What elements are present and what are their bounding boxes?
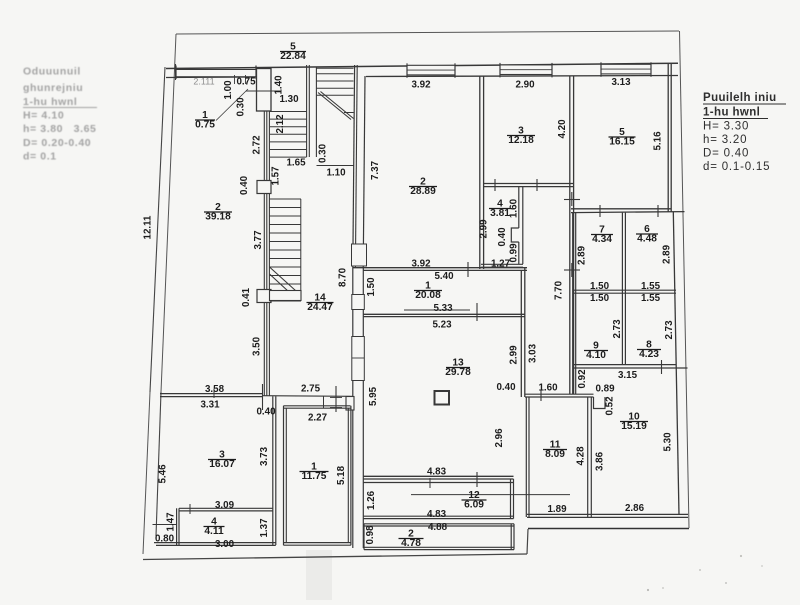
- svg-text:4.11: 4.11: [204, 526, 224, 537]
- svg-text:0.30: 0.30: [236, 97, 247, 117]
- svg-text:11.75: 11.75: [302, 471, 327, 482]
- svg-text:5.16: 5.16: [653, 131, 664, 151]
- svg-text:3.73: 3.73: [259, 446, 270, 466]
- svg-text:D= 0.20-0.40: D= 0.20-0.40: [23, 137, 91, 149]
- svg-text:1.55: 1.55: [641, 293, 661, 304]
- svg-text:H= 4.10: H= 4.10: [23, 110, 64, 122]
- svg-text:12.18: 12.18: [508, 135, 534, 146]
- svg-text:4.20: 4.20: [557, 119, 568, 139]
- svg-text:H= 3.30: H= 3.30: [703, 121, 749, 133]
- svg-text:1.50: 1.50: [590, 293, 610, 304]
- svg-text:16.15: 16.15: [609, 137, 635, 148]
- svg-text:0.41: 0.41: [241, 287, 252, 307]
- svg-text:1.50: 1.50: [590, 281, 610, 292]
- svg-text:0.98: 0.98: [365, 525, 376, 545]
- svg-text:12.11: 12.11: [143, 215, 154, 240]
- svg-text:3.58: 3.58: [205, 384, 225, 395]
- svg-text:1.00: 1.00: [223, 80, 234, 100]
- svg-text:h= 3.80 3.65: h= 3.80 3.65: [23, 123, 97, 135]
- svg-text:8.09: 8.09: [545, 449, 565, 460]
- svg-text:15.19: 15.19: [621, 421, 647, 432]
- svg-text:h= 3.20: h= 3.20: [703, 134, 747, 146]
- svg-text:0.99: 0.99: [509, 243, 520, 263]
- svg-text:7.70: 7.70: [554, 280, 565, 300]
- svg-text:3.15: 3.15: [618, 370, 638, 381]
- svg-text:3.81: 3.81: [490, 208, 510, 219]
- svg-text:1.30: 1.30: [279, 94, 299, 105]
- svg-text:5.18: 5.18: [336, 465, 347, 485]
- svg-text:5.30: 5.30: [663, 432, 674, 452]
- svg-text:0.40: 0.40: [256, 407, 276, 418]
- svg-text:1.47: 1.47: [166, 512, 177, 532]
- svg-text:4.10: 4.10: [586, 350, 606, 361]
- svg-text:4.48: 4.48: [637, 234, 657, 245]
- svg-text:22.84: 22.84: [280, 51, 306, 62]
- svg-text:29.78: 29.78: [445, 367, 471, 378]
- svg-text:2.90: 2.90: [515, 80, 535, 91]
- svg-text:5.33: 5.33: [433, 303, 453, 314]
- svg-text:2.12: 2.12: [275, 114, 286, 134]
- svg-text:Oduuunuil: Oduuunuil: [23, 66, 81, 78]
- svg-text:0.40: 0.40: [497, 227, 508, 247]
- svg-text:1.50: 1.50: [366, 277, 377, 297]
- svg-text:8.70: 8.70: [338, 267, 349, 287]
- svg-text:3.13: 3.13: [611, 77, 631, 88]
- svg-text:2.89: 2.89: [662, 244, 673, 264]
- svg-text:4.88: 4.88: [428, 522, 448, 533]
- svg-text:0.75: 0.75: [236, 77, 256, 88]
- svg-text:Puuilelh iniu: Puuilelh iniu: [703, 92, 777, 104]
- svg-text:0.80: 0.80: [155, 534, 175, 545]
- svg-text:5.40: 5.40: [434, 271, 454, 282]
- svg-text:0.30: 0.30: [318, 143, 329, 163]
- svg-text:1.65: 1.65: [286, 158, 306, 169]
- svg-text:D= 0.40: D= 0.40: [703, 148, 749, 160]
- svg-text:3.92: 3.92: [411, 259, 431, 270]
- svg-text:4.23: 4.23: [639, 349, 659, 360]
- svg-text:0.75: 0.75: [195, 120, 215, 131]
- svg-text:20.08: 20.08: [415, 290, 441, 301]
- svg-text:0.40: 0.40: [496, 382, 516, 393]
- svg-text:4.28: 4.28: [576, 446, 587, 466]
- svg-text:3.50: 3.50: [252, 336, 263, 356]
- svg-text:4.83: 4.83: [427, 467, 447, 478]
- svg-text:1.60: 1.60: [509, 198, 520, 218]
- svg-text:2.73: 2.73: [612, 319, 623, 339]
- svg-text:2.111: 2.111: [193, 77, 214, 87]
- svg-text:2.96: 2.96: [494, 428, 505, 448]
- svg-text:2.75: 2.75: [301, 384, 321, 395]
- svg-text:24.47: 24.47: [307, 302, 333, 313]
- svg-text:1.40: 1.40: [274, 75, 285, 95]
- svg-text:2.99: 2.99: [509, 345, 520, 365]
- svg-text:0.89: 0.89: [595, 384, 615, 395]
- svg-text:1.55: 1.55: [641, 281, 661, 292]
- svg-text:2.99: 2.99: [479, 219, 490, 239]
- svg-text:2.73: 2.73: [664, 320, 675, 340]
- svg-text:d= 0.1: d= 0.1: [23, 151, 57, 163]
- svg-text:4.78: 4.78: [401, 538, 421, 549]
- svg-text:2.86: 2.86: [625, 503, 645, 514]
- svg-text:1.37: 1.37: [259, 518, 270, 538]
- svg-text:d= 0.1-0.15: d= 0.1-0.15: [703, 161, 770, 173]
- svg-text:3.77: 3.77: [253, 230, 264, 250]
- svg-text:5.95: 5.95: [368, 386, 379, 406]
- svg-text:1.10: 1.10: [326, 168, 346, 179]
- svg-text:0.52: 0.52: [605, 396, 616, 416]
- svg-text:4.34: 4.34: [592, 234, 612, 245]
- svg-text:3.92: 3.92: [411, 80, 431, 91]
- svg-text:ghunrejniu: ghunrejniu: [23, 82, 83, 94]
- svg-text:1.60: 1.60: [538, 383, 558, 394]
- svg-text:1.26: 1.26: [366, 490, 377, 510]
- svg-text:7.37: 7.37: [370, 160, 381, 180]
- svg-text:5.23: 5.23: [432, 320, 452, 331]
- svg-text:4.83: 4.83: [427, 509, 447, 520]
- svg-text:2.72: 2.72: [252, 135, 263, 155]
- svg-text:3.03: 3.03: [528, 343, 539, 363]
- svg-text:5.46: 5.46: [158, 464, 169, 484]
- svg-text:2.27: 2.27: [308, 413, 328, 424]
- svg-text:0.40: 0.40: [239, 175, 250, 195]
- svg-text:39.18: 39.18: [205, 212, 231, 223]
- svg-text:28.89: 28.89: [410, 186, 436, 197]
- svg-text:1-hu hwnl: 1-hu hwnl: [703, 107, 760, 119]
- svg-text:3.31: 3.31: [200, 400, 220, 411]
- svg-text:6.09: 6.09: [464, 500, 484, 511]
- svg-text:3.86: 3.86: [595, 451, 606, 471]
- svg-text:0.92: 0.92: [577, 369, 588, 389]
- svg-text:1-hu hwnl: 1-hu hwnl: [23, 96, 77, 108]
- svg-text:2.89: 2.89: [577, 245, 588, 265]
- svg-text:3.09: 3.09: [215, 500, 235, 511]
- svg-text:1.57: 1.57: [271, 166, 282, 186]
- svg-text:16.07: 16.07: [209, 459, 235, 470]
- svg-text:3.00: 3.00: [215, 539, 235, 550]
- svg-text:1.89: 1.89: [547, 504, 567, 515]
